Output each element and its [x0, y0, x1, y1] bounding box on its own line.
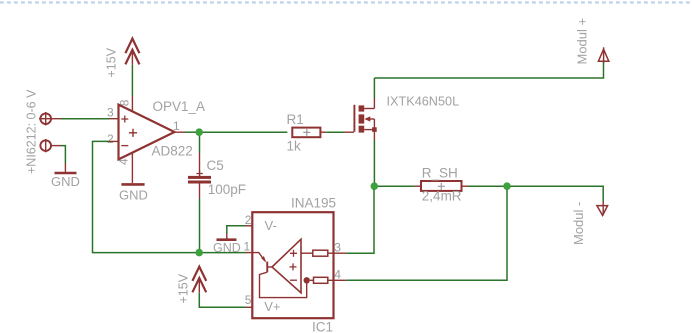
- pin number 2 (IC1): [245, 213, 252, 227]
- pin number 8: [118, 99, 132, 106]
- wire MOSFET drain to Modul+: [374, 62, 603, 98]
- ground GND (op-amp): [119, 188, 148, 203]
- wire MOSFET source to node C: [373, 140, 375, 183]
- label +15V (bottom): [177, 273, 191, 303]
- wire IC1 pin3 to node C: [334, 190, 375, 254]
- connector pad X1-2 (-): [40, 139, 51, 152]
- pin number 1: [173, 119, 180, 133]
- node D junction: [503, 182, 511, 190]
- wire node A to C5: [199, 136, 201, 176]
- label C5: [207, 158, 224, 173]
- node C junction: [371, 182, 379, 190]
- IC1 internal transistor: [252, 253, 306, 298]
- wire node A to R1: [203, 131, 288, 133]
- pin number 4: [116, 158, 130, 165]
- wire node C to R_SH: [378, 185, 421, 187]
- wire +15V to IC1 pin5: [199, 293, 252, 308]
- IC1 INA195 box: [252, 212, 333, 318]
- ground GND (left pad): [51, 173, 80, 189]
- svg-text:3: 3: [107, 106, 114, 120]
- supply +15V (bottom): [192, 267, 206, 293]
- value 2,4mR: [422, 188, 462, 203]
- terminal Modul -: [597, 206, 608, 216]
- label R1: [287, 112, 304, 127]
- wire opamp pin2 feedback: [93, 141, 196, 252]
- value 100pF: [208, 182, 246, 197]
- capacitor C5: [188, 170, 211, 183]
- svg-text:GND: GND: [51, 174, 80, 189]
- IC1 pin2 stub: [246, 225, 253, 227]
- IC1 internal resistor (pin4): [310, 277, 334, 283]
- value 1k: [287, 138, 302, 153]
- wire R1 to MOSFET gate: [320, 131, 354, 133]
- label Modul -: [571, 202, 586, 245]
- svg-text:4: 4: [334, 267, 341, 281]
- svg-text:GND: GND: [119, 188, 148, 203]
- pin number 1 (IC1): [244, 240, 251, 254]
- label OPV1_A: [153, 99, 206, 114]
- wire C5 to node B: [199, 184, 201, 253]
- svg-text:+NI6212: 0-6 V: +NI6212: 0-6 V: [25, 89, 39, 174]
- label V+: [264, 299, 280, 314]
- svg-text:5: 5: [245, 293, 252, 307]
- resistor R_SH: [421, 181, 462, 191]
- svg-text:GND: GND: [213, 241, 241, 255]
- svg-text:INA195: INA195: [291, 196, 336, 211]
- label +15V (top): [104, 47, 118, 77]
- svg-text:R_SH: R_SH: [422, 165, 458, 180]
- svg-text:C5: C5: [207, 158, 224, 173]
- label AD822: [152, 144, 193, 159]
- node B junction: [195, 249, 203, 257]
- svg-text:3: 3: [334, 240, 341, 254]
- wire pad- to GND: [51, 146, 65, 172]
- pin number 2: [107, 132, 114, 146]
- transistor Q1 IXTK46N50L (N-MOSFET): [354, 98, 376, 140]
- label NI6212: 0-6 V: [25, 89, 39, 174]
- svg-text:V+: V+: [264, 299, 280, 314]
- svg-text:100pF: 100pF: [208, 182, 246, 197]
- IC1 internal op-amp U1a: [272, 239, 301, 293]
- opamp pin4 to ground: [121, 153, 144, 185]
- svg-text:1: 1: [244, 240, 251, 254]
- label IC1: [312, 320, 333, 333]
- svg-text:1k: 1k: [287, 138, 302, 153]
- pin number 3 (IC1): [334, 240, 341, 254]
- svg-text:IXTK46N50L: IXTK46N50L: [387, 94, 460, 108]
- frame top edge: [0, 1, 692, 3]
- op-amp OPV1_A: [119, 105, 175, 160]
- supply +15V (top): [125, 39, 139, 65]
- label IXTK46N50L: [387, 94, 460, 108]
- connector pad X1-1 (+): [39, 112, 53, 125]
- wire IC1 pin4 to node D: [334, 190, 508, 281]
- terminal Modul +: [598, 47, 608, 62]
- wire node B to IC1 pin1: [203, 252, 252, 254]
- svg-text:+15V: +15V: [177, 273, 191, 303]
- svg-text:OPV1_A: OPV1_A: [153, 99, 206, 114]
- svg-text:2: 2: [107, 132, 114, 146]
- wire pad+ to opamp pin3: [51, 118, 119, 120]
- svg-text:4: 4: [116, 158, 130, 165]
- IC1 output junction dot: [304, 277, 310, 283]
- svg-text:+15V: +15V: [104, 47, 118, 77]
- label V-: [265, 218, 277, 233]
- label R_SH: [422, 165, 458, 180]
- ground GND (IC1 pin2): [213, 234, 241, 255]
- svg-text:1: 1: [173, 119, 180, 133]
- svg-text:Modul -: Modul -: [571, 202, 586, 245]
- wire IC1 pin2 to GND: [227, 226, 246, 234]
- svg-text:2,4mR: 2,4mR: [422, 188, 462, 203]
- pin number 4 (IC1): [334, 267, 341, 281]
- svg-text:IC1: IC1: [312, 320, 333, 333]
- IC1 internal resistor (pin3): [301, 250, 334, 256]
- svg-text:R1: R1: [287, 112, 304, 127]
- svg-text:Modul +: Modul +: [574, 18, 589, 65]
- resistor R1: [292, 128, 320, 138]
- pin number 3: [107, 106, 114, 120]
- svg-text:V-: V-: [265, 218, 277, 233]
- label Modul +: [574, 18, 589, 65]
- node A junction: [195, 128, 203, 136]
- svg-text:AD822: AD822: [152, 144, 193, 159]
- wire +15V to opamp pin8: [131, 65, 133, 111]
- label INA195: [291, 196, 336, 211]
- wire R_SH to node D: [462, 185, 504, 187]
- pin number 5 (IC1): [245, 293, 252, 307]
- wire opamp output to node A: [175, 131, 197, 133]
- svg-text:2: 2: [245, 213, 252, 227]
- wire node D to Modul-: [511, 186, 604, 215]
